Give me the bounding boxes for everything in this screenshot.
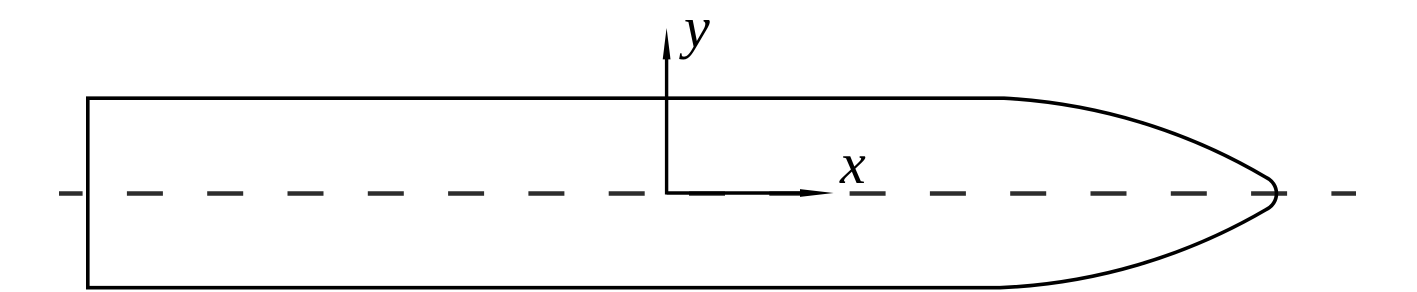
svg-text:x: x bbox=[839, 131, 866, 196]
svg-text:y: y bbox=[679, 0, 710, 60]
